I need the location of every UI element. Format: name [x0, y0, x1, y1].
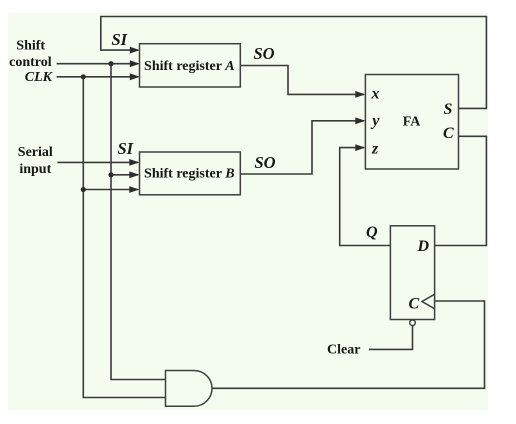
- svg-text:C: C: [409, 295, 420, 312]
- svg-text:S: S: [444, 101, 453, 118]
- svg-text:control: control: [9, 55, 52, 70]
- svg-text:Shift register B: Shift register B: [144, 167, 234, 182]
- svg-text:y: y: [370, 112, 380, 129]
- svg-text:FA: FA: [403, 115, 422, 130]
- svg-text:Clear: Clear: [327, 343, 360, 358]
- svg-text:z: z: [371, 141, 379, 158]
- svg-text:SI: SI: [112, 30, 128, 49]
- svg-text:D: D: [417, 238, 430, 255]
- svg-text:Serial: Serial: [18, 145, 53, 160]
- svg-text:C: C: [443, 125, 454, 142]
- svg-text:Q: Q: [366, 224, 378, 241]
- svg-text:SO: SO: [254, 44, 275, 63]
- svg-text:Shift register A: Shift register A: [144, 59, 234, 74]
- svg-text:input: input: [19, 162, 51, 177]
- svg-text:SO: SO: [255, 153, 276, 172]
- svg-text:SI: SI: [118, 139, 134, 158]
- svg-text:CLK: CLK: [25, 70, 54, 85]
- svg-text:x: x: [371, 86, 380, 103]
- svg-text:Shift: Shift: [16, 38, 45, 53]
